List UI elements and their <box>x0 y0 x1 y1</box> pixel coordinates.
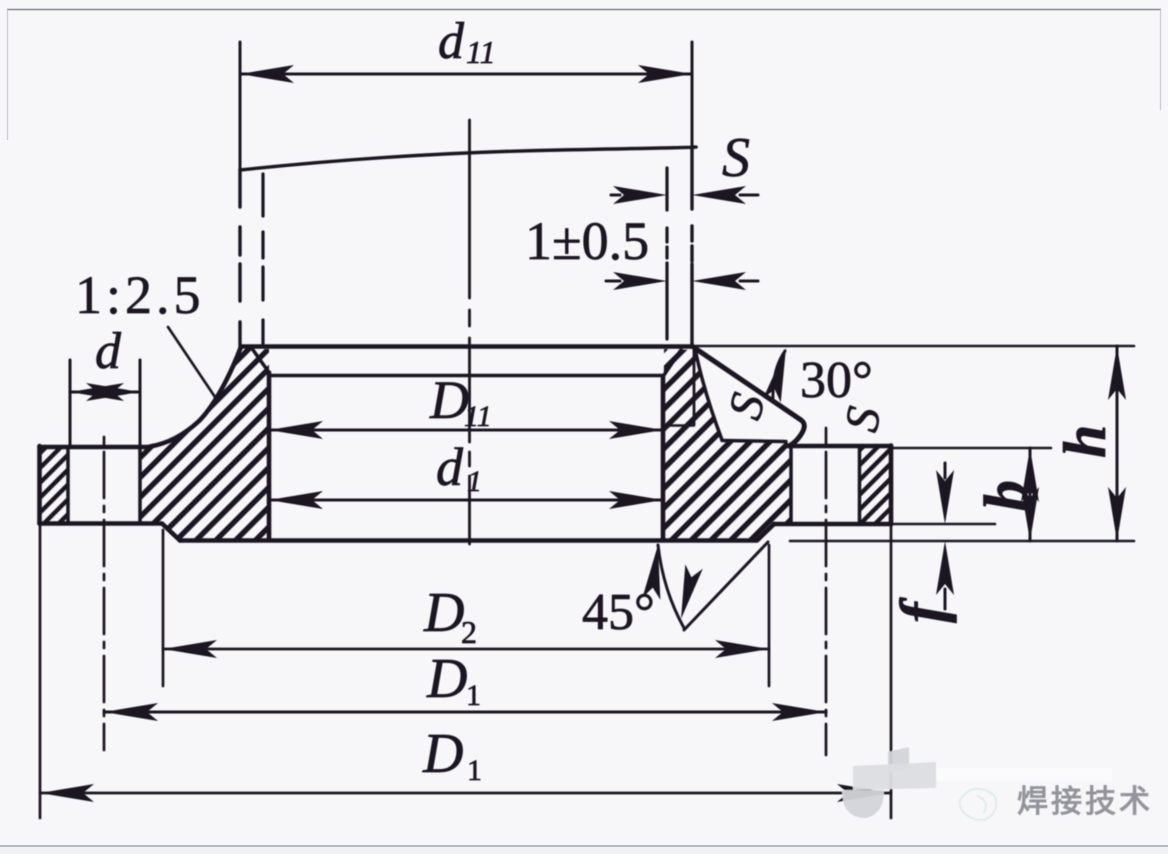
bolt hole wall right-inner <box>789 447 793 525</box>
bore wall left <box>267 373 272 540</box>
hub taper left (1:2.5) <box>150 348 241 447</box>
left border line <box>7 10 9 141</box>
taper label 1:2.5 with leader <box>168 327 215 397</box>
45 deg chamfer extension line <box>684 542 768 630</box>
svg-text:h: h <box>1052 425 1118 458</box>
dimension h (hub height) <box>1116 346 1119 541</box>
weld bottom boundary <box>722 441 786 442</box>
pipe break line at top <box>240 147 696 170</box>
dimension D1 (bolt circle) <box>104 711 826 714</box>
dimension S (pipe wall) <box>611 194 758 197</box>
svg-text:30°: 30° <box>800 352 873 409</box>
extension line plate bottom right <box>892 523 995 526</box>
dimension 1±0.5 <box>606 280 758 283</box>
svg-text:S: S <box>722 127 750 189</box>
flange top face <box>241 344 694 349</box>
svg-text:45°: 45° <box>582 584 655 641</box>
raised sealing face bottom <box>180 524 774 541</box>
svg-text:11: 11 <box>464 400 492 433</box>
dimension b (plate thickness) <box>1029 448 1032 541</box>
bolt hole centerline right <box>825 428 828 755</box>
extension line top face right <box>694 345 1134 348</box>
svg-text:2: 2 <box>461 614 477 650</box>
svg-text:D: D <box>422 723 463 785</box>
svg-text:焊接技术: 焊接技术 <box>1017 784 1153 819</box>
dimension D11 (bore) <box>269 429 663 432</box>
top border line <box>7 9 1161 11</box>
dimension f (raised face height) <box>944 463 947 609</box>
plate bottom right <box>774 522 891 527</box>
dimension d1 (bore) <box>269 499 663 502</box>
watermark green scribble <box>960 789 997 820</box>
svg-text:1±0.5: 1±0.5 <box>525 211 649 271</box>
plate top face left <box>40 445 151 450</box>
weld root line right <box>696 351 723 440</box>
pipe inner wall right (phantom) <box>665 168 668 339</box>
plate top face right <box>790 444 891 449</box>
bore wall right <box>661 377 666 540</box>
pipe inner wall left (phantom) <box>261 174 264 344</box>
flange outline <box>40 347 892 541</box>
pipe outer wall right (phantom) <box>690 147 693 346</box>
svg-text:11: 11 <box>466 34 496 70</box>
dimension d11 top <box>240 42 692 170</box>
dimension D1 outer (flange OD) <box>40 525 891 818</box>
svg-text:1: 1 <box>467 465 482 498</box>
svg-text:1:2.5: 1:2.5 <box>75 265 205 325</box>
svg-text:1: 1 <box>467 754 482 787</box>
hatched section: left outer ring of flange plate <box>41 448 68 523</box>
weld face right (30 deg) <box>694 348 804 447</box>
bolt hole wall left-outer <box>66 447 70 524</box>
svg-text:b: b <box>973 480 1041 511</box>
right border line <box>1160 10 1162 111</box>
svg-text:D: D <box>426 648 467 710</box>
svg-text:d: d <box>95 323 122 380</box>
svg-text:D: D <box>429 370 469 430</box>
30 degree weld angle arc <box>773 351 785 400</box>
pipe outer wall right inside hub <box>693 350 696 425</box>
bore chamfer left <box>252 349 269 373</box>
svg-text:d: d <box>438 13 465 70</box>
vertical centerline of bore <box>468 120 471 544</box>
extension line raised face bottom right <box>790 540 1134 543</box>
pipe outer wall left (phantom) <box>238 170 241 345</box>
svg-text:D: D <box>423 582 464 644</box>
pipe end edge inside hub <box>668 424 694 426</box>
hatched section: right hub, pipe wall and plate <box>663 349 791 540</box>
dimension D2 (raised face) <box>163 530 769 686</box>
plate bottom left <box>40 524 181 541</box>
bottom border line <box>0 845 1168 847</box>
bore shoulder edge <box>269 374 663 378</box>
svg-text:1: 1 <box>466 679 481 712</box>
watermark logo blob <box>842 747 1112 818</box>
bore chamfer right <box>663 350 681 377</box>
bolt hole centerline left <box>103 437 106 750</box>
45 degree chamfer angle indicator <box>658 545 684 628</box>
svg-text:d: d <box>436 437 464 497</box>
bolt hole wall right-outer <box>858 447 862 525</box>
extension line plate top right <box>892 447 1051 450</box>
hatched section: left hub and plate <box>140 348 269 540</box>
dimension d (bolt hole) <box>70 360 140 446</box>
bolt hole wall left-inner <box>138 447 142 524</box>
flange outer edge right <box>889 446 894 525</box>
hatched section: right outer ring of flange plate <box>860 447 890 523</box>
flange outer edge left <box>37 446 42 524</box>
